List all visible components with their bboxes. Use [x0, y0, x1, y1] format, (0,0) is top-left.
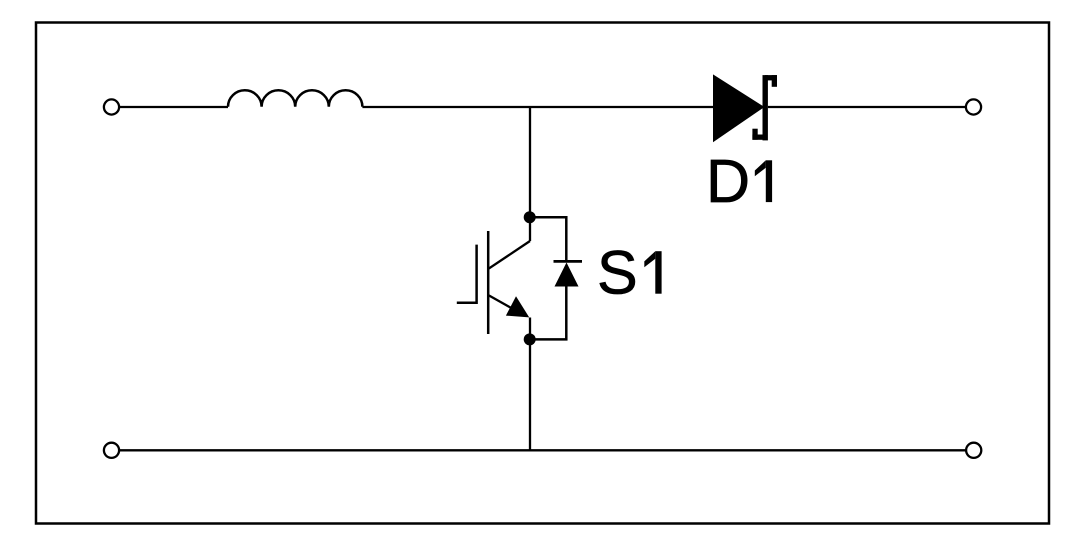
- label S1: [597, 239, 662, 307]
- node (bottom junction dot): [524, 333, 536, 345]
- svg-text:S: S: [597, 239, 638, 307]
- wire: [768, 106, 966, 108]
- wire (bottom branch from antiparallel diode): [530, 287, 567, 340]
- node (top junction dot): [524, 211, 536, 223]
- svg-text:D: D: [706, 147, 750, 215]
- wire (bottom rail): [120, 449, 966, 451]
- terminal T3 (bottom left): [104, 443, 119, 458]
- terminal T1 (top left): [104, 99, 119, 114]
- wire: [120, 106, 228, 108]
- wire (vertical from top wire to collector): [529, 107, 531, 241]
- diode D1 (Schottky): [714, 75, 778, 141]
- wire (emitter to bottom rail): [529, 339, 531, 450]
- terminal T4 (bottom right): [966, 443, 981, 458]
- terminal T2 (top right): [966, 99, 981, 114]
- wire (top branch to antiparallel diode): [530, 217, 567, 262]
- diode (antiparallel, in S1): [554, 261, 583, 286]
- label D1: [706, 147, 772, 215]
- transistor S1 (IGBT): [457, 231, 530, 340]
- wire: [362, 106, 714, 108]
- inductor L1: [228, 90, 362, 107]
